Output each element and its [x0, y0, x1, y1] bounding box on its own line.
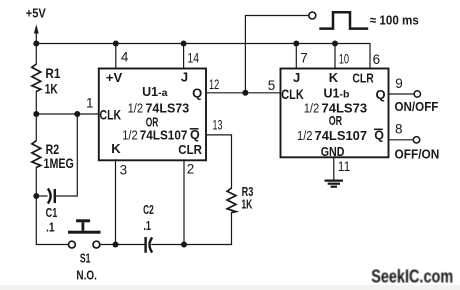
svg-text:GND: GND [321, 144, 345, 159]
svg-text:J: J [181, 70, 188, 85]
wire: U1-a pin 3 stub to bottom rail [115, 160, 117, 245]
svg-text:.1: .1 [46, 219, 55, 234]
IC U1-b box [281, 69, 389, 158]
node CLR pin 2 on bottom rail [181, 242, 187, 248]
wire: CLK node down to R2 [35, 114, 37, 141]
node pin 14 on top rail [181, 41, 187, 47]
svg-text:CLR: CLR [178, 142, 202, 157]
capacitor C1 [48, 189, 55, 204]
svg-text:10: 10 [339, 52, 349, 67]
svg-text:K: K [111, 141, 121, 156]
wire: U1-a pin 4 stub [115, 44, 117, 69]
wire: left rail +5V to R1 [35, 44, 37, 65]
wire: U1-b Q pin 9 lead [389, 93, 415, 95]
wire: U1-b pin 7 stub [295, 44, 297, 69]
wire: C1 right lead up to CLK node [56, 114, 78, 196]
svg-text:1/2: 1/2 [122, 127, 138, 142]
+5V supply arrow [34, 24, 39, 43]
wire: U1-a pin 14 stub [183, 44, 185, 69]
svg-text:74LS107: 74LS107 [315, 128, 368, 143]
svg-text:R1: R1 [45, 65, 60, 81]
svg-text:J: J [293, 70, 300, 85]
wire: U1-a pin 2 stub to bottom rail [183, 160, 185, 245]
ON/OFF output terminal [414, 91, 420, 97]
wire: U1-a Qbar pin 13 to R3 top [206, 135, 232, 188]
svg-text:C2: C2 [143, 202, 154, 217]
svg-text:+5V: +5V [26, 6, 46, 21]
svg-text:Q: Q [192, 85, 202, 100]
svg-text:12: 12 [209, 77, 219, 92]
node Q / pulse branch [242, 90, 248, 96]
node CLK / C1 branch [74, 111, 80, 117]
svg-text:5: 5 [268, 78, 276, 93]
resistor R2 [32, 141, 41, 168]
svg-text:SeekIC.com: SeekIC.com [371, 266, 453, 286]
wire: C1 left lead [36, 195, 47, 197]
svg-text:1/2: 1/2 [128, 100, 144, 115]
wire: R2 bottom to C1 node [35, 168, 37, 197]
node: junction dots [33, 41, 338, 248]
svg-text:1K: 1K [45, 80, 58, 96]
svg-text:8: 8 [395, 122, 403, 137]
svg-text:Q: Q [374, 129, 384, 143]
svg-text:6: 6 [373, 52, 381, 67]
pulse waveform symbol [319, 12, 368, 28]
node pin 10 on top rail [332, 41, 338, 47]
svg-text:13: 13 [213, 117, 223, 132]
svg-text:1/2: 1/2 [297, 128, 313, 143]
svg-text:CLK: CLK [281, 86, 303, 102]
wire: CLK node to U1-a pin 1 [36, 113, 99, 115]
svg-text:Q: Q [190, 128, 200, 142]
svg-text:.1: .1 [143, 218, 151, 233]
wire: U1-b Qbar pin 8 lead [389, 139, 414, 141]
svg-text:74LS73: 74LS73 [322, 100, 368, 115]
wire: U1-a Q pin 12 to U1-b CLK pin 5 [206, 92, 281, 94]
svg-text:2: 2 [187, 162, 195, 177]
svg-text:74LS107: 74LS107 [140, 127, 188, 142]
resistor R1 [32, 64, 41, 92]
switch S1 pushbutton [68, 219, 101, 248]
svg-text:C1: C1 [46, 205, 58, 220]
svg-text:Q: Q [376, 87, 386, 102]
svg-text:1K: 1K [241, 197, 252, 212]
OFF/ON output terminal [413, 137, 419, 143]
svg-text:4: 4 [121, 50, 129, 65]
svg-text:14: 14 [187, 50, 199, 65]
svg-text:3: 3 [120, 163, 128, 178]
svg-text:U1-a: U1-a [142, 85, 167, 99]
svg-text:1MEG: 1MEG [44, 155, 74, 171]
svg-text:7: 7 [300, 51, 308, 66]
svg-text:K: K [329, 70, 339, 85]
node pin 7 on top rail [293, 41, 299, 47]
svg-text:U1-b: U1-b [324, 86, 350, 100]
svg-text:+V: +V [106, 70, 123, 85]
svg-text:≈ 100 ms: ≈ 100 ms [370, 12, 419, 27]
node K pin 3 on bottom rail [113, 242, 119, 248]
wire: S1 to K node and C2 left lead [100, 244, 144, 246]
svg-text:N.O.: N.O. [76, 267, 97, 282]
wire: U1-b pin 10 stub [334, 44, 336, 69]
svg-text:CLK: CLK [100, 106, 122, 122]
svg-text:OFF/ON: OFF/ON [395, 146, 440, 161]
svg-text:11: 11 [338, 159, 351, 174]
wire: top rail [36, 44, 370, 69]
node pin 4 on top rail [113, 41, 119, 47]
svg-text:S1: S1 [80, 251, 91, 266]
wire: node to pulse test point [245, 16, 309, 93]
svg-text:1: 1 [86, 96, 94, 111]
capacitor C2 [146, 237, 153, 253]
wire: R1 bottom to CLK node [35, 92, 37, 115]
node R2 / C1 [33, 193, 39, 199]
svg-text:1/2: 1/2 [304, 100, 320, 115]
SeekIC.com watermark [371, 266, 453, 286]
svg-text:OR: OR [329, 114, 342, 128]
node CLK left [33, 111, 39, 117]
svg-text:ON/OFF: ON/OFF [395, 99, 439, 114]
wire: C1 node down to bottom rail [36, 196, 68, 245]
wire: R3 bottom to rail [231, 213, 233, 245]
resistor R3 [227, 188, 236, 213]
pulse test point terminal [309, 12, 316, 19]
wire: U1-b pin 11 to ground [333, 157, 335, 179]
op IC U1-a box [99, 69, 206, 161]
ground [325, 181, 343, 187]
svg-text:CLR: CLR [352, 70, 374, 85]
svg-text:9: 9 [395, 76, 403, 91]
svg-text:74LS73: 74LS73 [146, 100, 190, 115]
node +5V / top rail [33, 41, 39, 47]
wire: C2 right lead to CLR node and R3 [152, 244, 232, 246]
